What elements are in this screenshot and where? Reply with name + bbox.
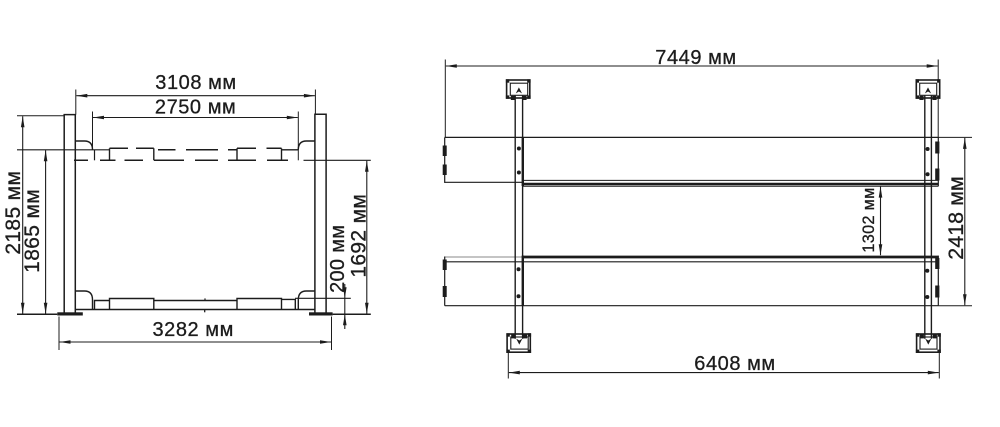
1692 extension line right	[304, 159, 371, 161]
svg-text:2750 мм: 2750 мм	[155, 97, 236, 119]
runway end nubs bottom-right	[935, 258, 939, 269]
raised platform surface line + 1865 extension	[17, 149, 110, 151]
top runway top edge	[445, 136, 939, 138]
dim 3282 line	[60, 341, 332, 343]
top runway bottom edge right segment	[523, 185, 938, 187]
svg-text:3282 мм: 3282 мм	[152, 319, 233, 341]
200 extension line	[295, 297, 351, 299]
bottom runway inner thin line	[445, 261, 939, 263]
dim 7449 extension lines	[444, 60, 446, 138]
raised small block left edge	[94, 150, 96, 161]
left cross beam	[514, 96, 516, 339]
lowered big block right	[237, 299, 282, 310]
bottom runway left end	[444, 257, 446, 306]
floor line right	[333, 313, 371, 315]
svg-text:6408 мм: 6408 мм	[694, 353, 775, 375]
lowered hump left	[75, 291, 92, 310]
dim 2185 extension at column top	[17, 115, 64, 117]
runway end nubs bottom-left	[443, 260, 447, 271]
dim 200 tails	[344, 298, 346, 314]
bottom runway top edge left light segment	[445, 256, 523, 258]
runway end nubs top-right	[935, 142, 939, 154]
svg-text:200 мм: 200 мм	[327, 225, 349, 293]
top runway right end	[937, 137, 939, 186]
dim 2750 line	[93, 117, 298, 119]
dim 7449 line	[446, 65, 938, 67]
dim 3108 line	[76, 95, 315, 97]
dim 3108 extension lines	[75, 90, 77, 115]
bottom runway thick inner edge	[523, 256, 938, 259]
lowered center tick lower	[204, 310, 206, 313]
column right	[315, 114, 326, 312]
lowered hump right	[298, 291, 315, 310]
top runway left end	[444, 137, 446, 183]
base plate right	[309, 312, 333, 315]
svg-text:2418 мм: 2418 мм	[944, 176, 968, 259]
dim 6408 line	[509, 372, 939, 374]
lowered platform underside	[76, 309, 315, 311]
svg-text:1692 мм: 1692 мм	[348, 194, 371, 278]
post cap bottom-left	[506, 333, 531, 353]
post cap top-right	[916, 79, 941, 100]
bottom runway bottom edge	[445, 305, 939, 307]
beam thick edge in runways	[522, 137, 524, 186]
floor line left	[17, 313, 57, 315]
dim 2418 line	[964, 138, 966, 305]
raised big block right top dashed	[237, 147, 282, 149]
raised big block left top dashed	[110, 147, 154, 149]
dim 2418 extension lines	[938, 136, 972, 138]
runway end nubs top-left	[443, 146, 447, 157]
lowered big block left	[110, 299, 154, 310]
base plate left	[57, 312, 83, 315]
raised surface right solid	[282, 149, 299, 151]
dim 2750 extension lines	[92, 112, 94, 150]
top runway bottom edge left segment	[445, 181, 523, 183]
dim 2185 line	[22, 116, 24, 313]
top runway inner thin line	[523, 179, 938, 181]
raised big block left	[109, 148, 111, 160]
dim 3282 extension lines	[58, 317, 60, 351]
dim 1865 line	[45, 150, 47, 313]
dim 6408 extension lines	[507, 352, 509, 378]
lowered center tick upper	[204, 298, 206, 300]
bottom runway right end	[937, 256, 939, 306]
top runway thick inner edge	[523, 183, 938, 186]
raised platform underside dashed	[74, 159, 288, 161]
beam bolts right	[926, 147, 930, 151]
post cap top-left	[506, 79, 531, 100]
raised big block right	[236, 148, 238, 160]
svg-text:7449 мм: 7449 мм	[655, 47, 736, 69]
beam bolts left	[517, 147, 521, 151]
svg-text:1865 мм: 1865 мм	[21, 189, 44, 273]
dim 1692 line	[366, 161, 368, 314]
right cross beam	[924, 96, 926, 339]
column left	[64, 115, 75, 313]
raised center dashed top	[158, 149, 237, 151]
dim 1302 line	[880, 187, 882, 256]
lowered center surface	[154, 300, 237, 302]
svg-text:1302 мм: 1302 мм	[860, 187, 878, 252]
svg-text:3108 мм: 3108 мм	[155, 72, 236, 94]
raised hump left	[75, 141, 92, 150]
right extension segment cap-to-runway	[937, 99, 939, 138]
raised hump right	[298, 141, 315, 150]
lowered small block left	[95, 301, 110, 310]
lowered small block right	[282, 299, 296, 309]
post cap bottom-right	[916, 333, 941, 353]
